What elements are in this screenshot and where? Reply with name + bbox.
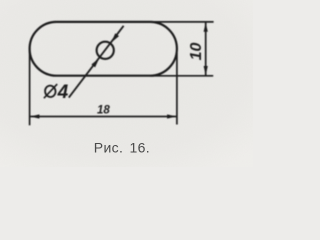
extension line top (10) [150, 21, 214, 23]
dimension line 18 [30, 116, 176, 118]
slot outline (obround plate) [30, 22, 177, 76]
svg-text:18: 18 [97, 105, 110, 117]
extension line left (18) [29, 50, 31, 125]
leader arrowhead upper [111, 33, 119, 42]
label Ø4: diameter symbol circle [44, 85, 57, 98]
paper background [0, 0, 253, 167]
extension line bottom (10) [150, 75, 213, 77]
dimension line 10 [205, 23, 207, 76]
arrow 10 top [204, 23, 208, 32]
leader line Ø4 [69, 26, 124, 98]
svg-text:10: 10 [188, 43, 205, 61]
svg-text:Рис. 16.: Рис. 16. [94, 140, 150, 156]
label Ø4: diameter symbol slash [44, 84, 57, 98]
arrow 18 left [30, 114, 39, 118]
hole circle [97, 42, 114, 59]
arrow 10 bottom [204, 66, 208, 75]
arrow 18 right [167, 114, 176, 118]
leader arrowhead lower [91, 58, 99, 67]
svg-text:4: 4 [57, 82, 69, 103]
extension line right (18) [176, 53, 178, 125]
